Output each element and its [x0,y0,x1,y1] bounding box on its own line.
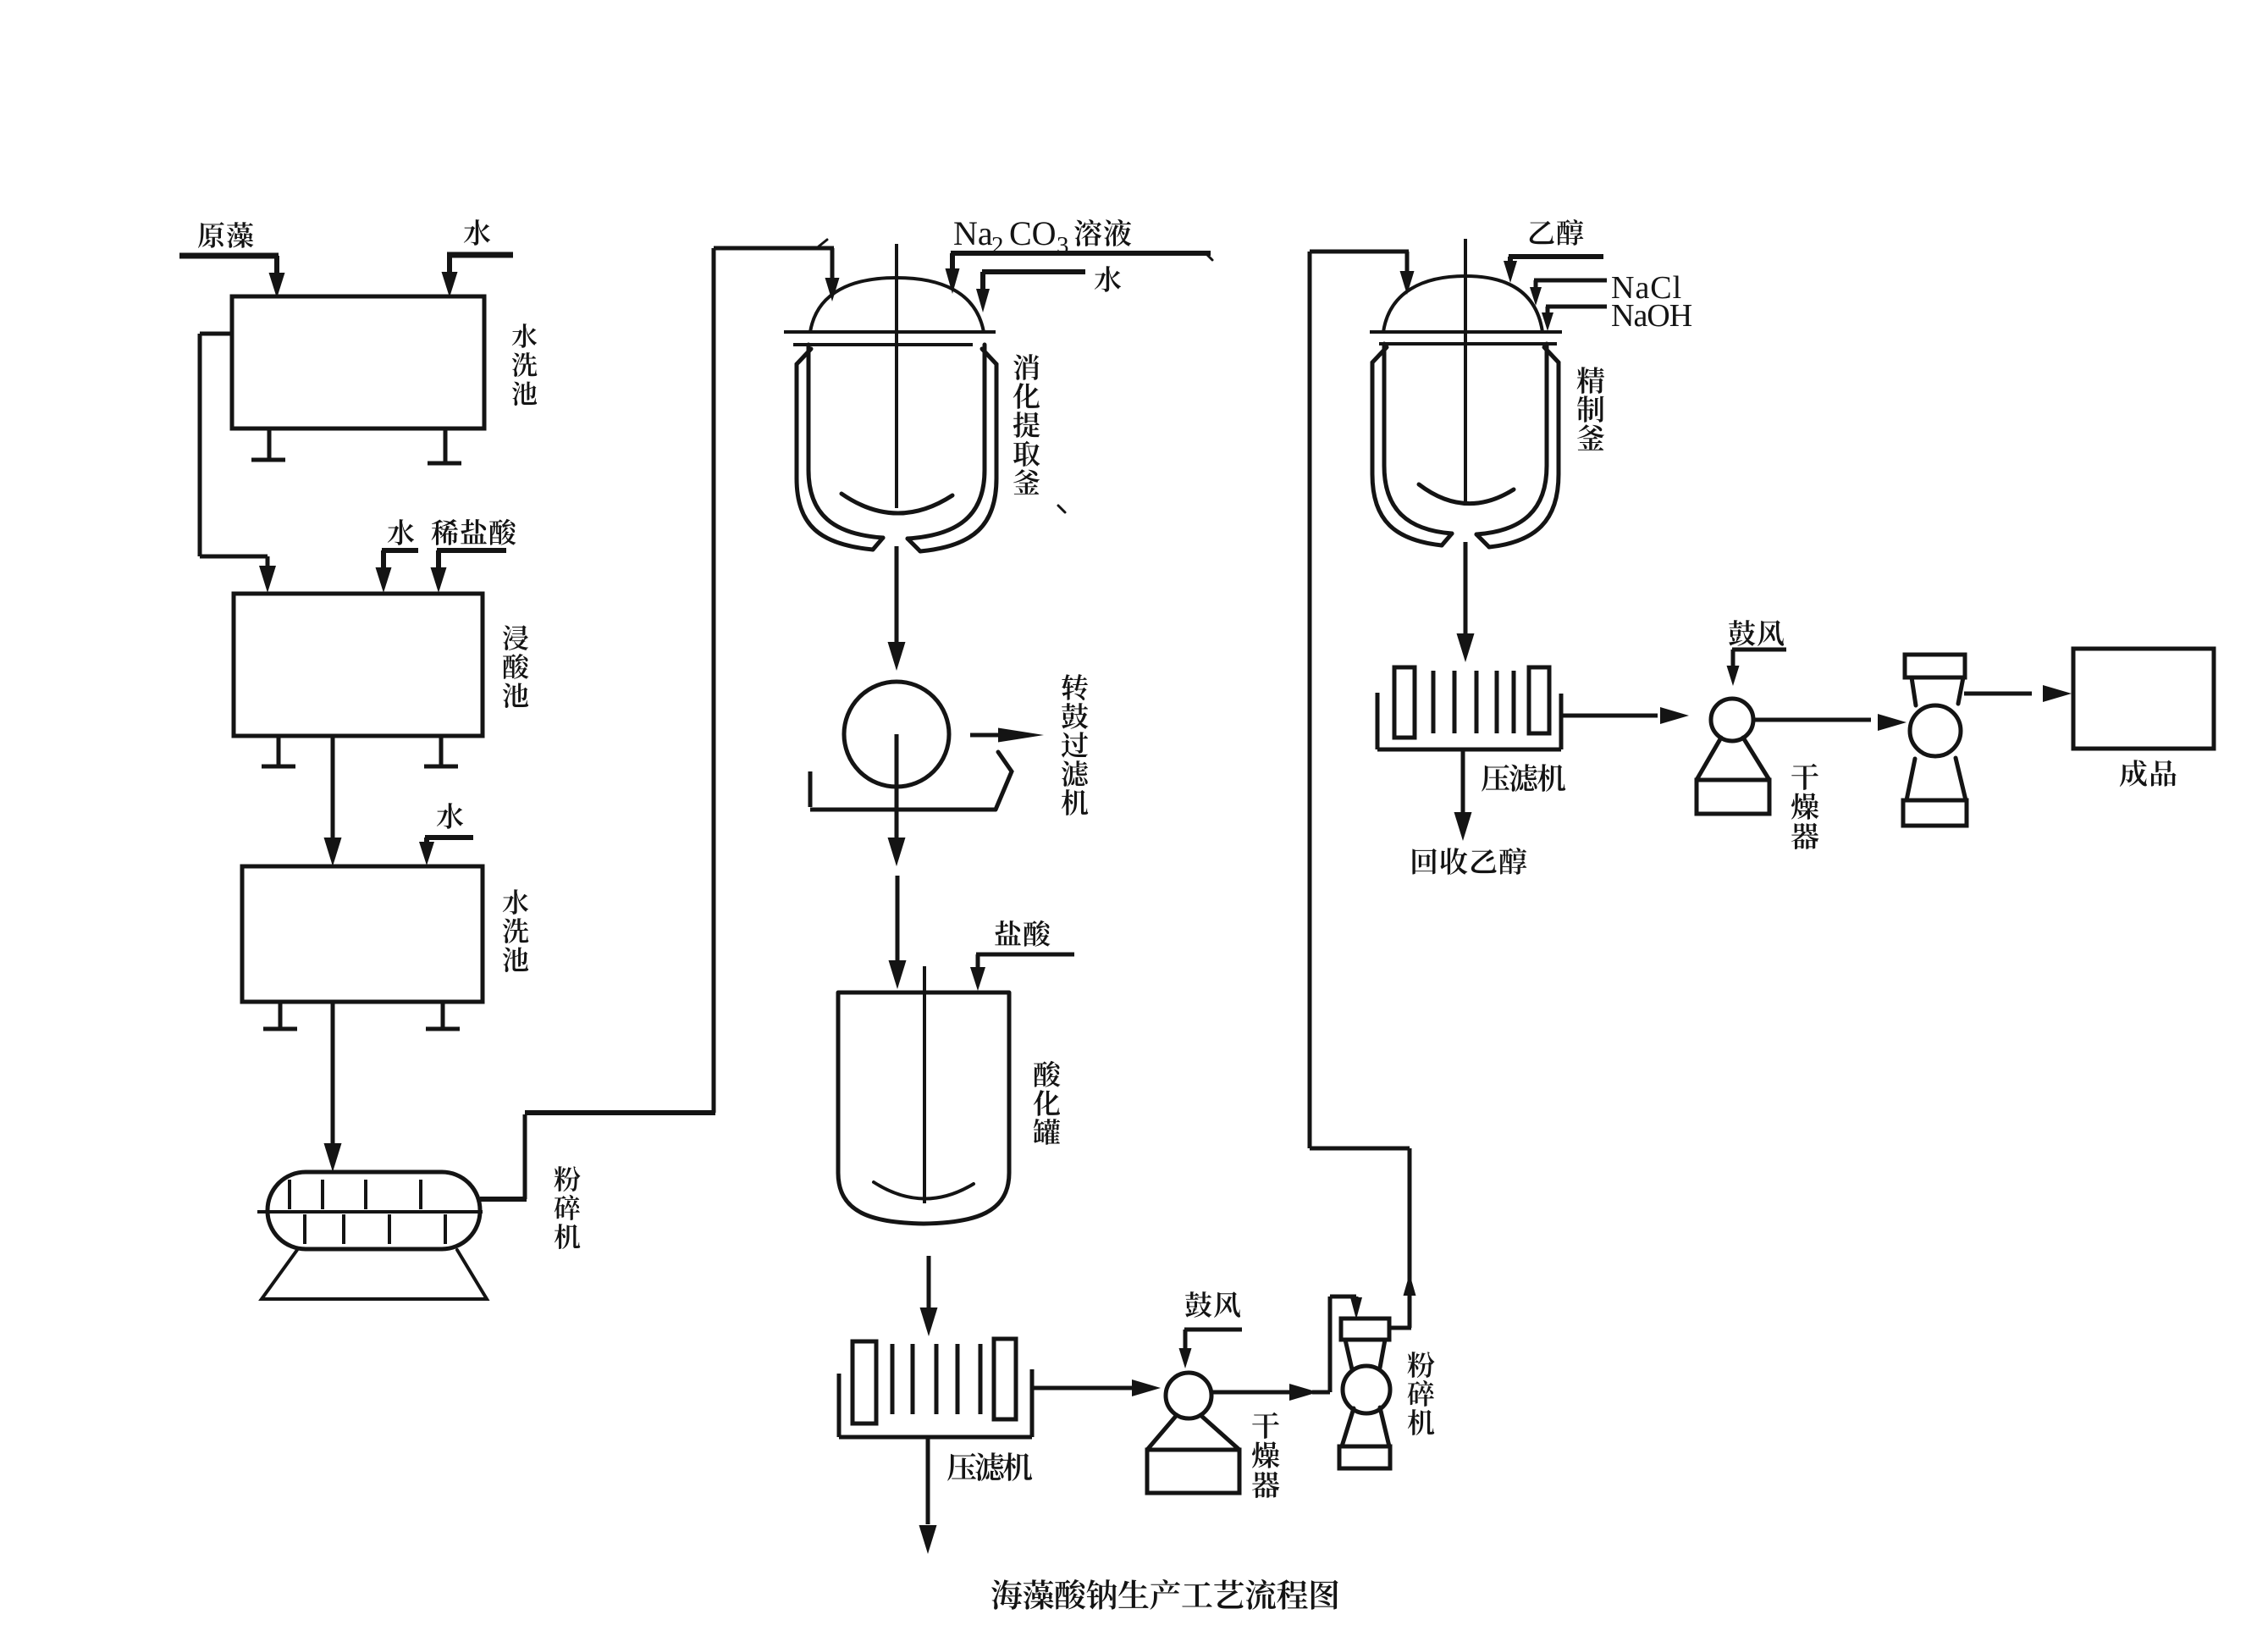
wire dilute HCl feed into acid-soak tank [437,548,506,553]
dryer 2 干燥器 ball [1711,699,1753,741]
label 压滤机 (filter press 2) [1482,764,1565,792]
label ethanol 乙醇 [1530,219,1584,246]
label water 水 (wash tank 1) [464,219,490,246]
crusher 1 base skirt [262,1250,487,1299]
acid-soak tank 浸酸池 [234,594,483,736]
crusher 2 upper cone [1345,1340,1352,1369]
refining kettle agitator shaft [1464,239,1467,501]
svg-text:NaOH: NaOH [1611,298,1692,334]
label 转鼓过滤机 [1062,674,1089,815]
digester flange lower [793,343,973,346]
wire crusher 1 up to digester [480,1197,527,1202]
label 浸酸池 [503,625,528,708]
label 消化提取釜 [1013,354,1040,495]
label 压滤机 (filter press 1) [947,1452,1032,1481]
refining kettle 精制釜 dome [1383,276,1542,332]
filter press 1 inner plates [891,1344,895,1414]
crusher 3 upper cone [1912,677,1916,705]
wire NaCl into refining kettle [1534,279,1607,283]
crusher 2 base [1339,1446,1390,1468]
crusher 1 粉碎机 body [268,1172,480,1249]
wash tank 2 水洗池 [242,866,483,1002]
wire water feed into acid-soak tank [382,548,418,553]
label water 水 (digester) [1095,266,1121,292]
wire drum filter to acidifier [896,876,900,962]
label dilute hydrochloric acid 稀盐酸 [432,519,516,545]
scan speck right of digester label [1058,506,1065,512]
crusher 2 lower cone [1342,1408,1354,1446]
refining kettle inner shell right [1476,344,1547,534]
svg-text:Na: Na [953,214,993,252]
crusher 1 lower teeth [303,1214,306,1244]
label 干燥器 (dryer 1) [1252,1413,1280,1498]
refining kettle flange lower [1379,342,1557,346]
wire water feed into wash tank 1 [447,252,513,258]
wire dryer 2 to crusher 3 [1753,718,1871,722]
wire dryer 1 to crusher 2 [1211,1390,1289,1395]
crusher 2 粉碎机 hopper [1341,1319,1389,1340]
wash tank 2 left leg [279,1002,283,1028]
wire HCl into acidifier [976,953,1074,957]
filter press 2 inner plates [1432,671,1436,733]
drum filter trough [808,771,813,807]
wire wash tank 1 to acid-soak tank [200,332,232,336]
acid-soak tank right leg [439,736,444,766]
label 精制釜 [1577,367,1605,451]
digester outlet ear right [908,539,920,551]
wire water feed into wash tank 2 [425,835,473,840]
label 水洗池 (wash tank 1) [512,323,538,406]
wire drum filter filtrate out right [970,733,1007,738]
wire water into digester [982,269,1085,274]
filter press 2 left end plate [1394,667,1415,738]
filter press 1 tray [837,1374,842,1437]
crusher 3 lower cone [1907,759,1915,800]
wire wash tank 2 to crusher 1 [331,1002,335,1147]
label recovered ethanol 回收乙醇 [1412,848,1526,875]
wire acidifier to filter press 1 [927,1256,931,1313]
refining kettle outlet ear right [1476,534,1489,547]
refining kettle flange upper [1370,330,1562,334]
crusher 3 base [1903,800,1967,826]
crusher 3 ball [1910,705,1961,756]
label 成品 [2120,760,2177,787]
wash tank 2 right leg [441,1002,445,1028]
label 水洗池 (wash tank 2) [503,889,529,972]
dryer 1 干燥器 ball [1166,1373,1211,1418]
digester agitator shaft [895,244,898,508]
acidifier agitator shaft [923,966,926,1203]
svg-text:CO: CO [1009,214,1057,252]
wire filter press 1 filtrate down [926,1437,930,1524]
wire crusher 2 up to refining kettle [1388,1326,1411,1330]
label blast 鼓风 (dryer 1) [1185,1291,1240,1318]
refining kettle outer jacket right [1489,347,1559,547]
label 粉碎机 (crusher 1) [555,1166,581,1249]
wash tank 1 left leg [268,428,272,459]
wire filter press 1 to dryer 1 [1032,1386,1139,1390]
refining kettle inner shell left [1384,344,1452,534]
crusher 1 upper teeth [288,1180,291,1209]
digester flange upper [784,330,996,334]
rotary drum filter 转鼓过滤机 drum [844,682,949,787]
filter press 1 right end plate [994,1339,1016,1419]
label water 水 (acid-soak tank) [388,519,414,545]
product box 成品 [2073,649,2214,749]
filter press 1 left end plate [853,1341,876,1424]
wire refining kettle to filter press 2 [1464,542,1468,637]
acidifier interior dish arc [874,1182,974,1199]
filter press 2 right end plate [1529,667,1549,733]
wire NaOH into refining kettle [1546,305,1607,309]
crusher 3 粉碎机 hopper [1905,655,1965,677]
wire acid-soak tank to wash tank 2 [331,736,335,843]
filter press 2 tray [1376,693,1380,749]
label water 水 (wash tank 2) [437,803,463,829]
digester inner shell left [808,345,883,538]
digester outer jacket left [797,349,873,550]
wire filter press 2 to dryer 2 [1561,714,1658,718]
wire raw-algae feed into wash tank 1 [179,253,279,259]
refining kettle outer jacket left [1372,347,1442,545]
digester outlet ear left [873,538,883,550]
label raw-algae 原藻 [198,222,253,248]
wire filter press 2 recovered ethanol down [1461,749,1465,813]
wire ethanol into refining kettle [1509,254,1603,259]
label 粉碎机 (crusher 2) [1408,1352,1435,1435]
scan speck near digester dome [819,240,827,246]
dryer 1 pedestal [1147,1415,1177,1450]
wire blast air into dryer 1 [1184,1328,1242,1332]
refining kettle interior arc [1419,484,1514,504]
crusher 2 ball [1343,1366,1390,1413]
digester outer jacket right [920,349,996,551]
wire crusher 3 to product [1964,692,2032,696]
digester kettle 消化提取釜 dome [810,278,984,332]
digester interior arc [842,494,952,513]
wire blast air into dryer 2 [1732,648,1786,652]
label 酸化罐 [1034,1061,1061,1145]
wire Na2CO3 solution into digester [951,251,1211,256]
acid-soak tank left leg [277,736,281,766]
acidifier tank 酸化罐 [838,991,1009,995]
label blast 鼓风 (dryer 2) [1729,620,1784,646]
label hydrochloric acid 盐酸 [995,921,1050,947]
caption 海藻酸钠生产工艺流程图 [991,1579,1338,1610]
crusher 1 mid line [257,1210,483,1214]
dryer 2 pedestal [1697,738,1721,780]
digester inner shell right [908,345,985,539]
wash tank 1 right leg [444,428,448,462]
scan speck below right kettle area [1487,858,1493,860]
wire digester to drum filter [895,546,899,645]
label 干燥器 (dryer 2) [1791,764,1819,849]
refining kettle outlet ear left [1442,534,1452,545]
drum filter axle line down [895,734,899,840]
wash tank 1 水洗池 [232,296,484,428]
